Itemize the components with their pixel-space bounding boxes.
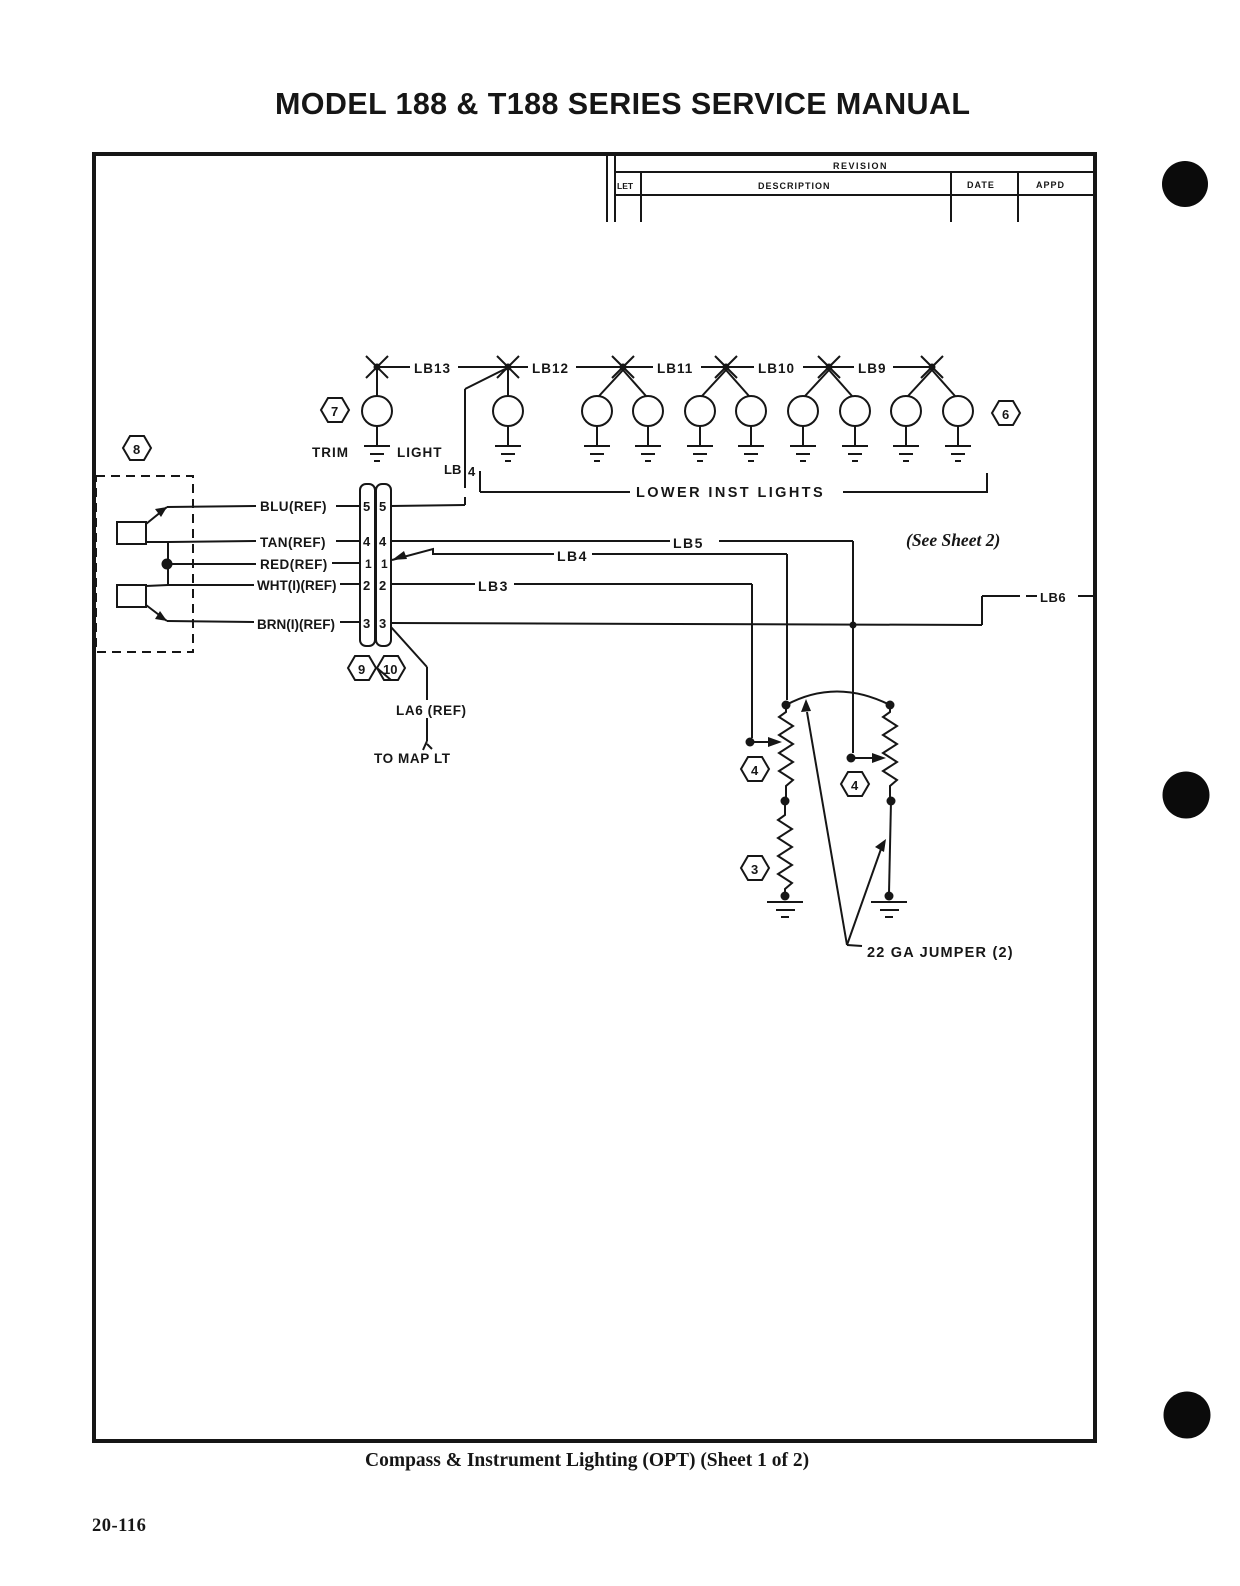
rheostat network: [741, 692, 1014, 962]
svg-text:TO MAP LT: TO MAP LT: [374, 751, 451, 766]
instrument lamp row: [312, 356, 1020, 505]
svg-text:LB12: LB12: [532, 361, 569, 376]
svg-text:BLU(REF): BLU(REF): [260, 499, 327, 514]
callout 10: [377, 656, 405, 680]
punch hole middle: [1163, 772, 1210, 819]
wire pin3 to LB6: [391, 596, 1093, 625]
ground left rheostat: [767, 902, 803, 917]
svg-text:3: 3: [379, 616, 386, 631]
svg-text:5: 5: [363, 499, 370, 514]
svg-text:4: 4: [851, 778, 859, 793]
svg-text:LOWER INST LIGHTS: LOWER INST LIGHTS: [636, 485, 825, 501]
svg-text:8: 8: [133, 442, 140, 457]
node mid right: [887, 797, 896, 806]
wire LB13 to LB12: [458, 366, 508, 368]
svg-text:RED(REF): RED(REF): [260, 557, 328, 572]
svg-text:4: 4: [363, 534, 371, 549]
punch hole bottom: [1164, 1392, 1211, 1439]
svg-text:DESCRIPTION: DESCRIPTION: [758, 181, 831, 191]
wiper right (LB5): [847, 753, 887, 763]
grounds lamp pair LB10: [687, 446, 764, 461]
svg-text:1: 1: [365, 557, 372, 571]
border frame: [94, 154, 1095, 1441]
callout 9: [348, 656, 376, 680]
grounds lamp pair LB11: [584, 446, 661, 461]
svg-text:Compass & Instrument Lighting: Compass & Instrument Lighting (OPT) (She…: [365, 1450, 809, 1471]
svg-text:LB5: LB5: [673, 535, 704, 551]
ground right rheostat: [871, 902, 907, 917]
pin numbers 5: [363, 499, 386, 514]
pin numbers 4: [363, 534, 387, 549]
lamp socket lower: [117, 585, 168, 621]
wire LB11 to LB10: [701, 366, 726, 368]
lamp socket upper: [117, 507, 168, 544]
svg-text:WHT(I)(REF): WHT(I)(REF): [257, 578, 336, 593]
wire LB4 from pin1: [392, 549, 787, 700]
svg-text:1: 1: [381, 557, 388, 571]
pin numbers 2: [363, 578, 386, 593]
callout 8: [123, 436, 151, 460]
svg-text:TAN(REF): TAN(REF): [260, 535, 326, 550]
svg-text:REVISION: REVISION: [833, 161, 888, 171]
callout 6: [992, 401, 1020, 425]
junction LB5 on pin3 wire: [850, 622, 857, 629]
pin numbers 3: [363, 616, 386, 631]
lamp pair last: [891, 370, 973, 446]
svg-text:4: 4: [751, 763, 759, 778]
connector J1: [360, 484, 391, 646]
wire BRN: [167, 621, 360, 622]
svg-text:LB4: LB4: [557, 548, 588, 564]
node bottom right: [885, 892, 894, 901]
wiper left (LB3): [746, 737, 783, 747]
callout 4 right: [841, 772, 869, 796]
node mid left: [781, 797, 790, 806]
grounds lamp pair last: [893, 446, 971, 461]
wire LB3 from pin2: [391, 584, 752, 738]
svg-text:9: 9: [358, 662, 365, 677]
lamp pair LB10: [685, 370, 766, 446]
dashed enclosure: [96, 476, 193, 652]
resistor R2 element: [778, 801, 792, 894]
lamp socket X mark LB12: [497, 356, 528, 378]
callout 7: [321, 398, 349, 422]
svg-text:2: 2: [379, 578, 386, 593]
jumper leader line 2: [847, 839, 886, 945]
svg-text:2: 2: [363, 578, 370, 593]
lamp socket X mark LB13: [366, 356, 410, 378]
svg-text:LB: LB: [444, 462, 461, 477]
svg-text:LB10: LB10: [758, 361, 795, 376]
wire LB10 to LB9: [803, 366, 829, 368]
lamp socket X mark last: [921, 356, 943, 378]
svg-text:4: 4: [379, 534, 387, 549]
jumper leader tail: [847, 945, 862, 946]
lower inst lights bracket: [480, 471, 987, 493]
svg-text:(See Sheet 2): (See Sheet 2): [906, 530, 1000, 550]
node top left rheostat: [782, 701, 791, 710]
svg-text:LB3: LB3: [478, 578, 509, 594]
punch hole top: [1162, 161, 1208, 207]
lamp socket X mark LB11: [612, 356, 653, 378]
svg-text:LIGHT: LIGHT: [397, 445, 443, 460]
svg-text:LET: LET: [617, 181, 634, 191]
revision table: [607, 156, 1093, 222]
wire WHT: [168, 584, 360, 585]
rheostat R1 element: [779, 705, 793, 798]
compass light assembly (dashed): [96, 436, 193, 652]
lamp socket X mark LB9: [818, 356, 854, 378]
svg-text:BRN(I)(REF): BRN(I)(REF): [257, 617, 335, 632]
svg-text:DATE: DATE: [967, 180, 995, 190]
node top right rheostat: [886, 701, 895, 710]
wire RED: [171, 563, 360, 564]
svg-text:20-116: 20-116: [92, 1516, 146, 1536]
pin numbers 1: [365, 557, 388, 571]
ground lamp LB12: [495, 446, 521, 461]
svg-text:10: 10: [383, 662, 397, 677]
callout 4 left: [741, 757, 769, 781]
node bottom left: [781, 892, 790, 901]
wire LA6 to map light: [391, 627, 432, 750]
svg-text:LB13: LB13: [414, 361, 451, 376]
jumper leader line 1: [801, 699, 847, 945]
wire LB12 to LB11: [576, 366, 623, 368]
wire LB9 to last socket: [893, 366, 932, 368]
svg-text:LB6: LB6: [1040, 590, 1066, 605]
svg-text:22 GA JUMPER (2): 22 GA JUMPER (2): [867, 945, 1014, 961]
svg-text:LB11: LB11: [657, 361, 693, 376]
callout 3: [741, 856, 769, 880]
svg-text:6: 6: [1002, 407, 1009, 422]
svg-text:3: 3: [751, 862, 758, 877]
wire socket link: [167, 542, 169, 585]
wire LB5 from pin4: [391, 541, 853, 753]
wire TAN: [168, 541, 360, 542]
svg-text:APPD: APPD: [1036, 180, 1065, 190]
svg-text:LA6 (REF): LA6 (REF): [396, 703, 467, 718]
lamp socket X mark LB10: [715, 356, 754, 378]
wire BLU: [167, 506, 360, 507]
grounds lamp pair LB9: [790, 446, 868, 461]
jumper 1 arc: [786, 692, 890, 706]
ground trim lamp: [364, 446, 390, 461]
wire pin5 to LB14: [391, 505, 465, 506]
rheostat R3 element: [883, 705, 897, 798]
junction node red: [162, 559, 173, 570]
svg-text:3: 3: [363, 616, 370, 631]
wire LB14 from LB12 socket: [465, 369, 505, 505]
lamp pair LB11: [582, 370, 663, 446]
svg-text:MODEL 188 & T188 SERIES SERVIC: MODEL 188 & T188 SERIES SERVICE MANUAL: [275, 87, 970, 121]
lamp LB12: [493, 370, 523, 446]
svg-text:TRIM: TRIM: [312, 445, 349, 460]
svg-text:LB9: LB9: [858, 361, 887, 376]
lamp pair LB9: [788, 370, 870, 446]
wire jumper 2 (rheostat to ground): [889, 801, 891, 893]
svg-text:5: 5: [379, 499, 386, 514]
svg-text:7: 7: [331, 404, 338, 419]
trim light lamp: [362, 370, 392, 446]
svg-text:4: 4: [468, 464, 476, 479]
